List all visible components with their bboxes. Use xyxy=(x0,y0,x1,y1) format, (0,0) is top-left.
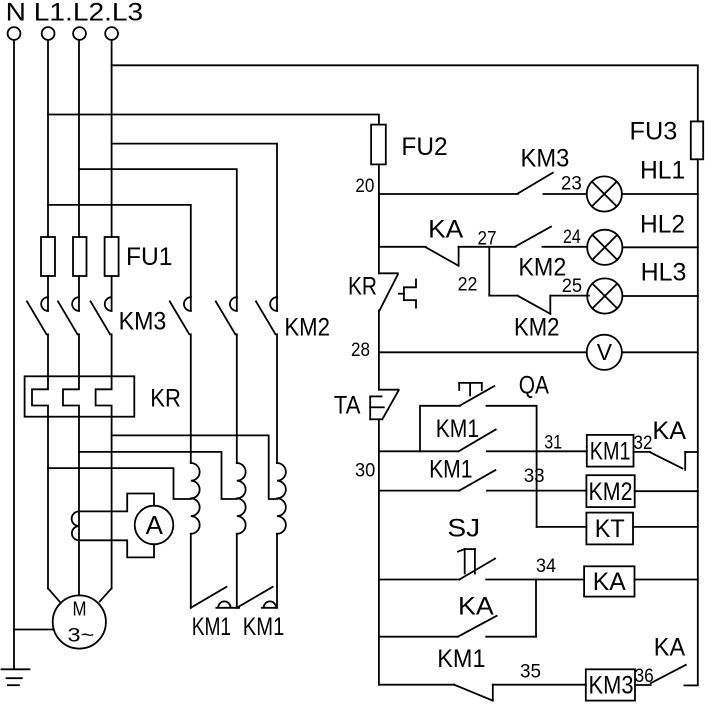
coil KT xyxy=(586,513,633,545)
contactor KM2 main contact 2 xyxy=(236,297,238,311)
wire L3 branch to winding 3 tap xyxy=(112,435,277,499)
KR heater element 2 xyxy=(63,376,79,416)
wire L2 branch to KM2 contact 2 xyxy=(79,169,237,297)
wire CT top lead to ammeter xyxy=(79,494,154,512)
transformer contact TA on rail xyxy=(370,390,398,420)
wire left rail to rung 2 xyxy=(378,194,380,247)
wire CT bottom lead to ammeter xyxy=(79,540,154,557)
contactor KM3 main contact 1 xyxy=(47,276,49,311)
relay contact KA NC (after KM1 coil) xyxy=(650,452,698,470)
wire contact to lamp HL3 xyxy=(550,295,589,297)
rung start wire from rail xyxy=(379,450,459,452)
wire rail KR to TA xyxy=(378,310,380,389)
contactor KM3 main contact 3 xyxy=(111,276,113,311)
svg-text:28: 28 xyxy=(351,340,370,361)
wire voltmeter to rail xyxy=(622,351,698,353)
svg-text:A: A xyxy=(146,510,164,540)
contact KM3 aux NO xyxy=(518,173,553,194)
svg-text:FU1: FU1 xyxy=(126,243,173,271)
svg-text:25: 25 xyxy=(562,276,582,297)
svg-text:32: 32 xyxy=(634,433,653,454)
contact KM1 aux NO (rung start) xyxy=(459,430,496,452)
wire rail TA down to bottom xyxy=(378,421,380,685)
wire KA contact to node 27 xyxy=(459,246,516,248)
svg-text:SJ: SJ xyxy=(447,515,480,543)
pushbutton QA xyxy=(459,383,494,406)
svg-text:23: 23 xyxy=(561,174,582,195)
wire L1 KR to motor xyxy=(48,417,60,602)
wire KA latch to node 34 xyxy=(486,580,536,637)
current transformer on L2 phase xyxy=(72,511,79,540)
time relay contact SJ xyxy=(458,549,495,579)
wire contact to coil KM3 xyxy=(493,684,586,686)
svg-text:HL2: HL2 xyxy=(640,210,685,238)
rung 3 wire xyxy=(489,295,517,297)
wire L1 vertical upper xyxy=(47,40,49,237)
svg-text:KA: KA xyxy=(654,634,686,662)
svg-text:33: 33 xyxy=(524,466,545,487)
pushbutton QA branch right side xyxy=(487,406,537,452)
wire right rail xyxy=(697,159,699,684)
contactor KM3 main contact 2 xyxy=(78,276,80,311)
wire node 27 down xyxy=(488,247,490,296)
wire L1 branch to KM2 contact 1 xyxy=(48,205,191,298)
fuse FU3 xyxy=(691,121,703,159)
wire L3 KR to motor xyxy=(100,417,112,602)
contact KM1 NC interlock xyxy=(454,685,493,701)
coil KM2 xyxy=(586,475,634,507)
rung HL1 wire from rail xyxy=(379,193,518,195)
svg-text:M: M xyxy=(73,599,87,621)
rung voltmeter wire xyxy=(379,351,587,353)
contact KM2 aux NO xyxy=(516,227,551,247)
contactor KM1 star contact 2 xyxy=(237,587,277,608)
pushbutton QA branch left side xyxy=(420,406,460,452)
wire contact to coil KM1 xyxy=(487,450,587,452)
svg-text:27: 27 xyxy=(478,229,497,250)
svg-text:FU2: FU2 xyxy=(401,133,447,161)
wire contact to lamp HL2 xyxy=(543,246,588,248)
rung 2 wire from rail xyxy=(379,246,426,248)
autotransformer winding 1 xyxy=(190,334,192,463)
wire lamp HL2 to rail xyxy=(622,246,697,248)
wire N vertical xyxy=(13,40,15,668)
relay contact KA NO (after KM3 coil) xyxy=(651,665,686,683)
wire lamp HL3 to rail xyxy=(622,295,697,297)
ammeter A xyxy=(135,506,174,545)
svg-text:TA: TA xyxy=(334,392,361,420)
svg-text:KM2: KM2 xyxy=(284,313,330,341)
wire L3 branch to FU3 right rail xyxy=(112,65,698,121)
fuse FU1 (three cartridges) xyxy=(41,237,119,276)
fuse FU2 xyxy=(371,125,386,165)
wire L1 branch to FU2 xyxy=(48,115,379,125)
autotransformer winding 3 xyxy=(276,334,278,463)
svg-text:35: 35 xyxy=(520,662,541,683)
rung KA-coil wire from rail xyxy=(379,579,460,581)
thermal overload relay KR box xyxy=(25,376,135,416)
wire junction to coil KT xyxy=(537,526,587,528)
svg-text:KM3: KM3 xyxy=(119,308,167,336)
wire KM3 contacts to KR box xyxy=(48,334,112,376)
relay contact KA NO latch xyxy=(458,616,497,637)
wire coil KM3 to KA contact xyxy=(635,684,651,686)
lamp HL1 xyxy=(587,176,622,211)
wire node 31 down to rung KM2 coil xyxy=(536,451,538,527)
wire coil KM2 to rail xyxy=(635,490,698,492)
svg-text:KM1: KM1 xyxy=(437,645,485,673)
wire L2 KR to motor xyxy=(78,417,80,596)
svg-text:20: 20 xyxy=(355,176,374,197)
svg-text:KM3: KM3 xyxy=(589,672,634,700)
svg-text:KM2: KM2 xyxy=(514,313,559,341)
lamp HL2 xyxy=(587,230,622,265)
svg-text:HL1: HL1 xyxy=(640,157,685,185)
svg-text:N L1.L2.L3: N L1.L2.L3 xyxy=(6,0,144,26)
KR heater element 3 xyxy=(96,376,112,416)
wire left rail FU2 to KR contact xyxy=(378,164,380,273)
KR heater element 1 xyxy=(32,376,48,416)
svg-text:KM1: KM1 xyxy=(243,613,284,641)
wire L1 branch to winding 1 tap xyxy=(48,468,191,499)
svg-text:3~: 3~ xyxy=(68,626,95,647)
svg-text:34: 34 xyxy=(536,556,556,577)
contact KM1 aux NO (rung KM2 coil) xyxy=(459,470,495,491)
wire L2 branch to winding 2 tap xyxy=(79,452,237,499)
wire L2 vertical upper xyxy=(78,40,80,237)
thermal relay KR NC contact on rail xyxy=(379,273,416,310)
motor M 3~ xyxy=(53,595,106,648)
svg-text:KM2: KM2 xyxy=(589,478,633,506)
svg-text:QA: QA xyxy=(519,372,549,400)
svg-text:KM1: KM1 xyxy=(436,415,479,443)
terminal N xyxy=(8,27,21,40)
coil KM3 xyxy=(586,669,635,700)
svg-text:KM1: KM1 xyxy=(192,613,231,641)
coil KA xyxy=(584,566,634,596)
lamp HL3 xyxy=(587,278,622,313)
contact KM2 aux NC xyxy=(517,296,550,314)
wire contact to lamp HL1 xyxy=(543,193,586,195)
terminal L1 xyxy=(42,27,55,40)
terminal L3 xyxy=(105,27,118,40)
svg-text:HL3: HL3 xyxy=(641,259,687,287)
svg-text:KR: KR xyxy=(348,273,377,301)
wire SJ contact to coil KA xyxy=(486,579,584,581)
autotransformer winding 2 xyxy=(236,334,238,463)
terminal L2 xyxy=(73,27,86,40)
svg-text:KA: KA xyxy=(428,215,463,243)
ground xyxy=(2,669,30,685)
contactor KM2 main contact 3 xyxy=(276,297,278,311)
svg-text:22: 22 xyxy=(458,275,478,296)
wire rail bottom step xyxy=(684,684,697,686)
wire L3 vertical upper xyxy=(111,40,113,237)
wire lamp HL1 to rail xyxy=(622,193,698,195)
svg-text:FU3: FU3 xyxy=(630,118,678,146)
rung KM2-coil wire from rail xyxy=(379,490,459,492)
svg-text:KR: KR xyxy=(150,384,181,412)
svg-text:KA: KA xyxy=(593,568,626,596)
svg-text:KA: KA xyxy=(652,417,686,445)
svg-text:KT: KT xyxy=(595,515,625,543)
svg-text:KM1: KM1 xyxy=(429,455,472,483)
relay contact KA down-type xyxy=(426,247,459,266)
wire L3 branch to KM2 contact 3 xyxy=(112,144,277,298)
contactor KM1 star contact 1 xyxy=(191,587,239,608)
rung KA latch wire from rail xyxy=(379,636,458,638)
svg-text:V: V xyxy=(597,339,613,365)
wire N to motor xyxy=(14,629,54,631)
wire coil KM1 to KA contact xyxy=(634,451,651,453)
svg-text:KM1: KM1 xyxy=(590,438,631,466)
svg-text:KA: KA xyxy=(458,593,494,621)
coil KM1 xyxy=(587,435,634,467)
wire contact to coil KM2 xyxy=(487,490,586,492)
contactor KM2 main contact 1 xyxy=(190,297,192,311)
svg-text:24: 24 xyxy=(563,227,581,248)
svg-text:KM3: KM3 xyxy=(521,145,570,173)
svg-text:KM2: KM2 xyxy=(518,253,566,281)
bottom rung wire from rail xyxy=(379,684,454,686)
voltmeter V xyxy=(587,335,622,370)
wire coil KA to rail xyxy=(635,579,698,581)
svg-text:30: 30 xyxy=(355,461,375,482)
wire coil KT to rail xyxy=(633,526,698,528)
